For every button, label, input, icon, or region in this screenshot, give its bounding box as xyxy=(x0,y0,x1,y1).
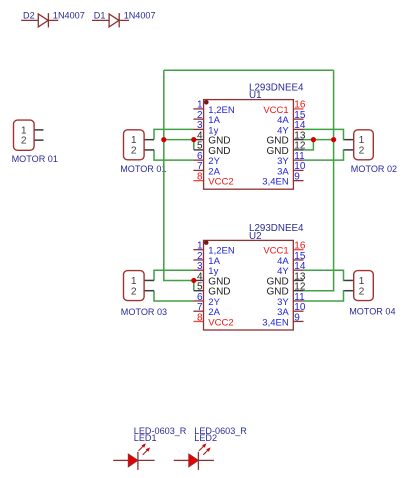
svg-text:U1: U1 xyxy=(249,90,262,101)
svg-text:MOTOR 03: MOTOR 03 xyxy=(121,307,167,317)
wire U1 left GND branch xyxy=(164,140,194,150)
svg-text:2: 2 xyxy=(21,136,27,147)
svg-text:2: 2 xyxy=(359,146,365,157)
svg-text:VCC2: VCC2 xyxy=(208,177,233,188)
U2 pin1 indicator dot xyxy=(204,240,209,245)
wire U1 pin14 to motor02 pin1 xyxy=(304,129,345,139)
svg-text:U2: U2 xyxy=(249,231,262,242)
wire U1 pin12 bracket xyxy=(304,140,314,150)
LED2 xyxy=(174,426,248,470)
node U2 pin4 junction xyxy=(191,278,196,283)
node U1 right GND junction on vertical xyxy=(331,137,336,142)
U2 pin stubs left 1-8 xyxy=(193,249,203,251)
wire U2 motor03 pin1 to 1y xyxy=(154,270,193,280)
node U1 pin13 bracket junction xyxy=(311,137,316,142)
U1 body xyxy=(204,100,294,190)
svg-text:MOTOR 01: MOTOR 01 xyxy=(120,164,166,174)
svg-text:D1: D1 xyxy=(94,11,106,21)
op-amp U2 xyxy=(193,223,305,330)
svg-text:D2: D2 xyxy=(23,11,35,21)
wire U2 pin11 to motor04 pin2 xyxy=(304,291,345,301)
wire U1 pin11 to motor02 pin2 xyxy=(304,150,345,160)
U1 pin1 indicator dot xyxy=(204,100,209,105)
U1 pin stubs left 1-8 xyxy=(193,108,203,110)
wire U1 motor01 pin2 to 2Y xyxy=(154,150,193,160)
diode D2 xyxy=(21,11,85,28)
svg-text:2: 2 xyxy=(131,286,137,297)
svg-text:1N4007: 1N4007 xyxy=(53,11,85,21)
diode D1 xyxy=(92,11,156,28)
op-amp U1 xyxy=(193,82,305,189)
connector MOTOR 01 (at U1) xyxy=(124,130,155,160)
svg-text:2: 2 xyxy=(131,146,137,157)
wire U1 motor01 pin1 to 1y xyxy=(154,129,193,139)
svg-text:3,4EN: 3,4EN xyxy=(262,317,289,328)
connector MOTOR 02 xyxy=(344,130,397,174)
svg-text:2: 2 xyxy=(359,286,365,297)
svg-text:9: 9 xyxy=(294,312,300,323)
connector MOTOR 03 xyxy=(121,271,167,317)
connector MOTOR 04 xyxy=(344,271,395,317)
svg-text:MOTOR 04: MOTOR 04 xyxy=(349,307,395,317)
U2 pin stubs right 16-9 xyxy=(293,249,303,251)
LED1 xyxy=(113,426,187,470)
svg-text:LED2: LED2 xyxy=(194,433,217,443)
svg-text:9: 9 xyxy=(294,171,300,182)
connector MOTOR 01 (isolated) xyxy=(12,120,58,164)
wire U2 pin14 to motor04 pin1 xyxy=(304,270,345,280)
svg-text:8: 8 xyxy=(197,312,203,323)
wire U1 pin13 to vertical xyxy=(304,139,334,141)
U2 body xyxy=(204,240,294,330)
node U1 pin4 junction xyxy=(191,137,196,142)
wire right vertical xyxy=(304,70,334,290)
svg-text:1N4007: 1N4007 xyxy=(124,11,156,21)
wire GND top loop xyxy=(164,70,334,290)
wire left vertical xyxy=(164,70,194,280)
svg-text:VCC2: VCC2 xyxy=(208,317,233,328)
U1 pin stubs right 16-9 xyxy=(293,108,303,110)
wire U2 motor03 pin2 to 2Y xyxy=(154,291,193,301)
svg-text:MOTOR 01: MOTOR 01 xyxy=(12,154,58,164)
wire U2 pin5 bracket xyxy=(193,280,195,290)
svg-text:3,4EN: 3,4EN xyxy=(262,177,289,188)
node U1 left GND junction on vertical xyxy=(161,137,166,142)
svg-text:8: 8 xyxy=(197,171,203,182)
wire top horizontal xyxy=(164,69,334,71)
svg-text:MOTOR 02: MOTOR 02 xyxy=(351,164,397,174)
svg-text:LED1: LED1 xyxy=(134,433,157,443)
